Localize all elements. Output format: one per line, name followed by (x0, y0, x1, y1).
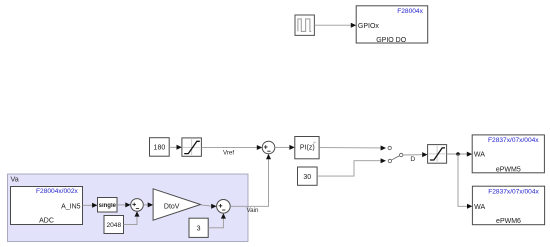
sum junction sum3 (217, 200, 231, 214)
wire 3 to sum3 bottom (208, 213, 226, 228)
svg-text:single: single (99, 203, 117, 209)
wire 2048 to sum2 bottom (124, 211, 140, 224)
wire 180 to saturation (169, 145, 182, 150)
constant 2048 (104, 216, 124, 234)
data type convert block single (98, 198, 118, 213)
svg-text:F2837x/07x/004x: F2837x/07x/004x (488, 137, 539, 144)
wire saturation to ePWM5 with junction (447, 152, 473, 157)
wire saturation to sum1, label Vref (201, 145, 262, 156)
block ePWM6 (472, 186, 544, 225)
wire junction down to ePWM6 (458, 154, 472, 209)
svg-text:PI(z): PI(z) (300, 145, 315, 152)
wire sum1 to PI(z) (275, 145, 295, 150)
saturation block Vref limit (182, 138, 202, 156)
svg-text:F28004x: F28004x (397, 8, 423, 15)
svg-text:DtoV: DtoV (164, 203, 180, 210)
svg-text:F2837x/07x/004x: F2837x/07x/004x (488, 188, 539, 195)
wire single to sum2 (117, 202, 131, 207)
controller block PI(z) (295, 137, 319, 159)
svg-text:Vain: Vain (247, 207, 259, 214)
svg-text:3: 3 (197, 226, 201, 233)
svg-text:ePWM5: ePWM5 (496, 167, 521, 174)
gain block DtoV (153, 189, 200, 220)
wire sum3 to sum1 bottom, label Vain (230, 154, 271, 214)
saturation block duty limit (428, 145, 447, 164)
block GPIO DO (356, 6, 428, 44)
wire pulse generator to GPIO DO (314, 23, 356, 28)
svg-text:Vref: Vref (223, 149, 234, 156)
wire ADC to single (83, 203, 98, 208)
manual switch, label D (388, 146, 428, 163)
wire 30 to switch bottom input (317, 158, 386, 176)
svg-text:WA: WA (474, 152, 485, 159)
svg-text:WA: WA (474, 204, 485, 211)
svg-text:180: 180 (154, 145, 166, 152)
svg-text:ADC: ADC (39, 217, 54, 224)
constant 180 (150, 138, 170, 157)
block ePWM5 (472, 135, 544, 174)
svg-text:ePWM6: ePWM6 (496, 218, 521, 225)
pulse generator (295, 15, 314, 35)
svg-text:Va: Va (11, 174, 19, 183)
area Va (8, 174, 249, 242)
wire gain to sum3 (201, 204, 217, 209)
svg-text:D: D (410, 156, 415, 163)
sum junction sum1 (262, 141, 275, 154)
svg-text:2048: 2048 (106, 222, 121, 229)
constant 30 (298, 167, 318, 185)
wire PI(z) to switch top input (319, 146, 386, 151)
sum junction sum2 (131, 199, 144, 212)
svg-text:GPIO DO: GPIO DO (376, 37, 407, 44)
svg-text:A_IN5: A_IN5 (61, 204, 81, 211)
wire sum2 to gain DtoV (143, 202, 153, 207)
svg-text:GPIOx: GPIOx (358, 23, 380, 30)
svg-text:F28004x/002x: F28004x/002x (36, 188, 78, 195)
constant 3 (189, 218, 208, 237)
block ADC (11, 187, 83, 225)
svg-text:30: 30 (303, 174, 311, 181)
